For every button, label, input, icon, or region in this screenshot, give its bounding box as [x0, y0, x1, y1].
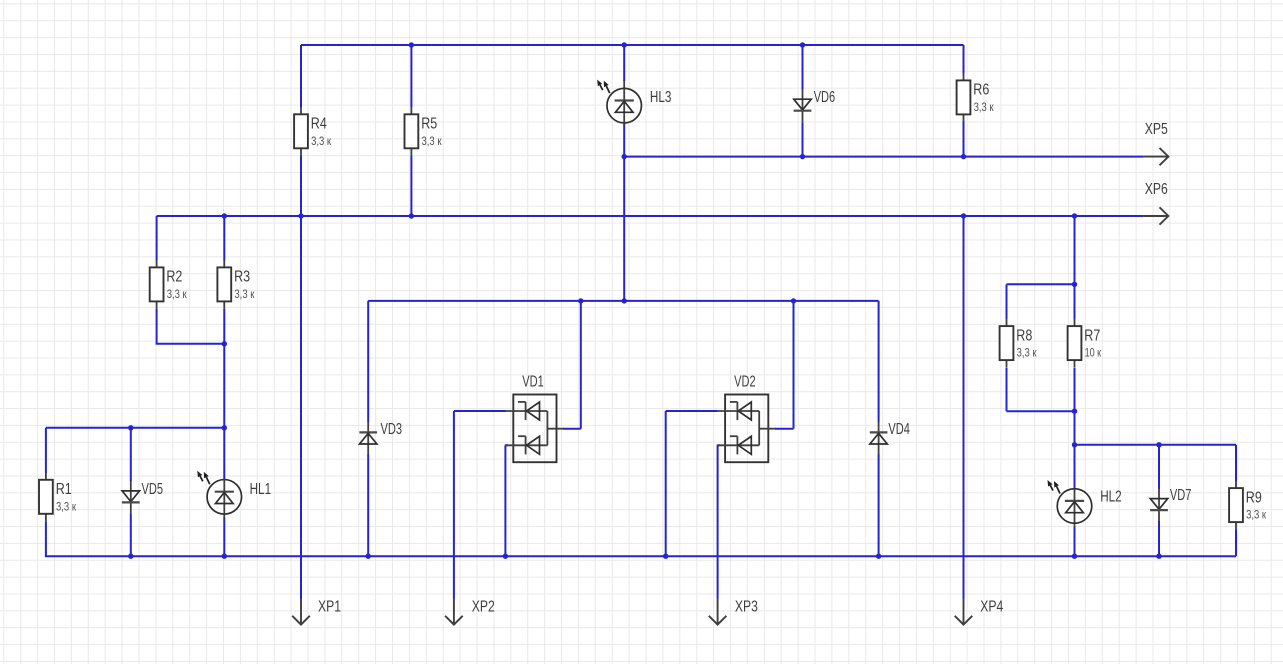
- junction left rail / HL1: [222, 425, 227, 430]
- connector XP3: [709, 599, 727, 625]
- wire VD1 right pin wire: [563, 428, 581, 430]
- diode VD7: [1150, 488, 1168, 521]
- svg-text:XP6: XP6: [1145, 181, 1168, 198]
- svg-text:R2: R2: [166, 269, 182, 286]
- wire HL1 upper segment: [223, 428, 225, 480]
- wire R1 upper segment: [45, 428, 47, 473]
- wire R1 lower segment: [45, 521, 47, 556]
- junction left rail / VD5: [128, 425, 133, 430]
- svg-text:R6: R6: [973, 82, 989, 99]
- wire R8 lower segment: [1006, 368, 1008, 411]
- svg-text:3,3 к: 3,3 к: [56, 499, 77, 513]
- wire VD3 upper segment: [367, 301, 369, 422]
- wire R7 upper segment: [1074, 284, 1076, 319]
- junction right rail / HL2: [1072, 442, 1077, 447]
- wire R7 lower segment: [1074, 368, 1076, 411]
- junction bridge rail / VD2 riser: [791, 298, 796, 303]
- svg-text:VD6: VD6: [814, 89, 836, 106]
- wire VD2 left riser: [665, 411, 667, 556]
- junction top bus / VD6: [800, 42, 805, 47]
- dual diode VD1: [505, 395, 564, 463]
- wire VD5 lower segment: [130, 514, 132, 556]
- wire R4 upper segment: [300, 45, 302, 107]
- wire XP2 drop: [453, 411, 455, 599]
- wire VD6 upper segment: [802, 45, 804, 90]
- wire R7R8 top rail: [1007, 283, 1075, 285]
- junction XP5 bus / R6: [961, 154, 966, 159]
- svg-text:R1: R1: [56, 481, 72, 498]
- svg-text:HL3: HL3: [650, 89, 672, 106]
- svg-text:R5: R5: [421, 116, 437, 133]
- wire VD2 right riser: [793, 301, 795, 429]
- svg-text:XP5: XP5: [1145, 121, 1168, 138]
- wire R9 upper segment: [1235, 445, 1237, 481]
- svg-text:VD3: VD3: [381, 421, 403, 438]
- wire XP6 bus: [157, 215, 1144, 217]
- wire R6 upper segment: [963, 45, 965, 73]
- wire HL3-to-bridge segment: [623, 124, 625, 301]
- diode VD3: [359, 422, 377, 455]
- svg-text:HL1: HL1: [250, 481, 272, 498]
- connector XP2: [445, 599, 463, 625]
- diode VD6: [794, 89, 812, 122]
- wire VD2 right pin wire: [775, 428, 794, 430]
- wire R5 lower segment: [410, 156, 412, 216]
- svg-text:3,3 к: 3,3 к: [422, 134, 443, 148]
- wire VD1 bottom drop: [504, 445, 506, 556]
- wire HL1 lower segment: [223, 518, 225, 556]
- junction XP6 bus / R5: [409, 213, 414, 218]
- junction bottom bus / HL1: [222, 554, 227, 559]
- junction R7R8 top rail / feed: [1072, 282, 1077, 287]
- wire VD4 lower segment: [878, 454, 880, 556]
- svg-text:VD4: VD4: [888, 421, 910, 438]
- junction bottom bus / VD2 riser: [663, 554, 668, 559]
- wire R3-to-HL1 segment: [223, 344, 225, 428]
- LED HL3: [597, 80, 641, 125]
- junction XP6 bus / R4 line: [298, 213, 303, 218]
- wire R9 lower segment: [1235, 530, 1237, 557]
- connector XP6: [1144, 207, 1169, 224]
- diode VD4: [870, 422, 888, 455]
- wire R4-to-XP1 segment: [300, 156, 302, 599]
- diode VD5: [122, 481, 140, 514]
- wire VD1 top pin wire: [454, 410, 506, 412]
- svg-text:XP2: XP2: [472, 599, 495, 616]
- svg-text:XP3: XP3: [735, 599, 758, 616]
- connector XP1: [292, 599, 310, 625]
- junction top bus / HL3: [622, 42, 627, 47]
- wire R3 lower segment: [223, 309, 225, 344]
- resistor R8: [1000, 319, 1014, 368]
- junction bottom bus / VD5: [128, 554, 133, 559]
- resistor R5: [405, 107, 419, 156]
- LED HL1: [197, 471, 241, 519]
- svg-text:HL2: HL2: [1100, 489, 1122, 506]
- dual diode VD2: [717, 395, 776, 463]
- junction top bus / R5: [409, 42, 414, 47]
- svg-text:3,3 к: 3,3 к: [311, 134, 332, 148]
- resistor R2: [150, 260, 164, 309]
- wire R2 lower segment: [156, 309, 158, 344]
- junction right rail / VD7: [1156, 442, 1161, 447]
- svg-text:3,3 к: 3,3 к: [974, 100, 995, 114]
- wire VD2 top pin wire: [666, 410, 718, 412]
- wire VD5 upper segment: [130, 428, 132, 481]
- wire R7R8 feed: [1074, 216, 1076, 284]
- svg-text:3,3 к: 3,3 к: [167, 287, 188, 301]
- svg-text:XP1: XP1: [318, 599, 341, 616]
- LED HL2: [1048, 480, 1092, 528]
- wire XP4 drop: [963, 216, 965, 599]
- resistor R6: [957, 73, 971, 122]
- wire VD1 bottom pin stub: [505, 444, 508, 446]
- junction R2-R3 rail / R3: [222, 341, 227, 346]
- wire VD7 upper segment: [1158, 445, 1160, 489]
- svg-text:R9: R9: [1246, 489, 1262, 506]
- connector XP5: [1144, 148, 1169, 165]
- junction XP6 bus / R7R8 feed: [1072, 213, 1077, 218]
- wire XP5 bus: [624, 156, 1144, 158]
- wire XP3 drop: [717, 445, 719, 598]
- wire R2-R3 rail: [156, 343, 225, 345]
- wire top bus: [301, 44, 964, 46]
- junction XP6 bus / XP4 drop: [961, 213, 966, 218]
- wire R2 upper segment: [156, 216, 158, 260]
- wire R6 lower segment: [963, 121, 965, 156]
- svg-text:R4: R4: [311, 116, 327, 133]
- junction bottom bus / HL2: [1072, 554, 1077, 559]
- svg-text:VD2: VD2: [734, 374, 756, 391]
- wire bottom bus: [45, 555, 1236, 557]
- svg-text:3,3 к: 3,3 к: [234, 287, 255, 301]
- junction XP6 bus / R3: [222, 213, 227, 218]
- wire VD3 lower segment: [367, 454, 369, 556]
- resistor R7: [1068, 319, 1082, 368]
- wire R7R8 bottom rail: [1007, 410, 1075, 412]
- wire R8 upper segment: [1006, 284, 1008, 319]
- wire R5 upper segment: [410, 45, 412, 107]
- connector XP4: [955, 599, 973, 625]
- wire R3 upper segment: [223, 216, 225, 260]
- wire VD4 upper segment: [878, 301, 880, 422]
- wire VD7 lower segment: [1158, 521, 1160, 556]
- junction XP5 bus / HL3: [622, 154, 627, 159]
- svg-text:VD1: VD1: [522, 374, 544, 391]
- junction bridge rail / VD1 riser: [578, 298, 583, 303]
- wire HL3 upper segment: [623, 45, 625, 81]
- svg-text:R7: R7: [1084, 327, 1100, 344]
- junction bottom bus / VD7: [1156, 554, 1161, 559]
- svg-text:VD7: VD7: [1170, 487, 1192, 504]
- wire right rail: [1075, 444, 1237, 446]
- wire HL2 lower segment: [1074, 527, 1076, 556]
- junction R7R8 bottom rail: [1072, 409, 1077, 414]
- junction bottom bus / VD3: [366, 554, 371, 559]
- svg-text:3,3 к: 3,3 к: [1246, 508, 1267, 522]
- svg-text:R8: R8: [1016, 327, 1032, 344]
- resistor R4: [294, 107, 308, 156]
- svg-text:10 к: 10 к: [1085, 346, 1102, 360]
- svg-text:VD5: VD5: [142, 481, 164, 498]
- wire R7R8-to-right-rail: [1074, 411, 1076, 445]
- junction bottom bus / VD4: [876, 554, 881, 559]
- wire VD2 bottom pin stub: [718, 444, 720, 446]
- svg-text:3,3 к: 3,3 к: [1017, 346, 1038, 360]
- wire left rail: [46, 427, 224, 429]
- wire VD6 lower segment: [802, 122, 804, 156]
- resistor R9: [1229, 481, 1243, 530]
- resistor R3: [217, 260, 231, 309]
- svg-text:XP4: XP4: [980, 599, 1003, 616]
- wire VD1 right riser: [580, 301, 582, 429]
- resistor R1: [39, 472, 53, 521]
- junction bottom bus / VD1 drop: [503, 554, 508, 559]
- junction bridge rail / HL3 line: [622, 298, 627, 303]
- wire bridge top rail: [368, 300, 878, 302]
- svg-text:R3: R3: [234, 269, 250, 286]
- wire HL2 upper segment: [1074, 445, 1076, 489]
- junction XP5 bus / VD6: [800, 154, 805, 159]
